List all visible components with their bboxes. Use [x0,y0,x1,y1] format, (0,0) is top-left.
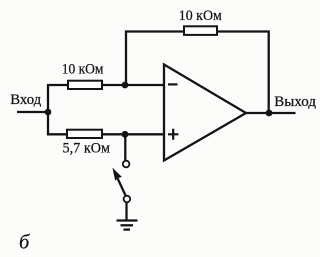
svg-text:Выход: Выход [274,94,316,110]
svg-text:5,7 кОм: 5,7 кОм [63,141,111,157]
svg-text:10 кОм: 10 кОм [62,61,104,77]
svg-text:10 кОм: 10 кОм [179,8,222,24]
svg-text:б: б [19,232,30,254]
svg-text:Вход: Вход [10,92,41,108]
